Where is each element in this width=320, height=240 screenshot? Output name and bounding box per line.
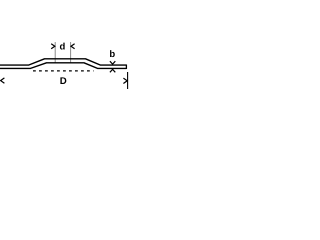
disc top surface [0, 59, 126, 65]
extension line d left [54, 42, 56, 63]
d arrow left [51, 44, 55, 49]
background [0, 0, 130, 130]
D arrow right [123, 78, 127, 83]
b arrow down [110, 61, 115, 64]
svg-text:d: d [59, 42, 65, 53]
svg-text:D: D [60, 76, 67, 87]
D extension line right [127, 72, 129, 89]
dashed plane line [33, 70, 94, 72]
b arrow up [110, 69, 115, 72]
d arrow right [71, 44, 75, 49]
extension line d right [70, 42, 72, 63]
D arrow left [1, 78, 5, 83]
disc bottom surface [0, 63, 126, 69]
svg-text:b: b [109, 49, 115, 60]
disc right edge cap [125, 65, 127, 70]
